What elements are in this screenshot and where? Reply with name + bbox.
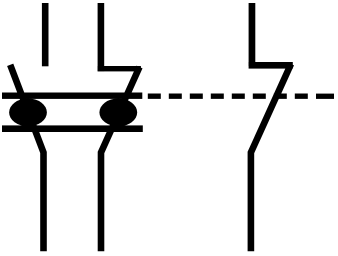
pole 2 movable contact arm and bottom terminal wire [101,67,140,251]
pole 2 arm pivot horizontal segment [98,66,141,71]
pole 3 arm pivot horizontal segment [249,62,293,69]
mechanical linkage dashed line (last dash) [316,94,334,99]
bridging contact bar (lower) [2,125,143,132]
contact dot pole 1 [9,99,47,127]
pole 1 top terminal wire [42,3,49,66]
pole 3 movable contact arm and bottom terminal wire [251,64,291,251]
pole 2 top terminal wire [98,3,105,71]
pole 1 movable contact arm and bottom terminal wire [10,65,43,252]
pole 3 (auxiliary contact) top terminal wire [249,3,256,66]
bridging contact bar (upper) [2,93,142,99]
contact dot pole 2 [99,99,137,127]
mechanical linkage (dashed line) [148,94,313,99]
